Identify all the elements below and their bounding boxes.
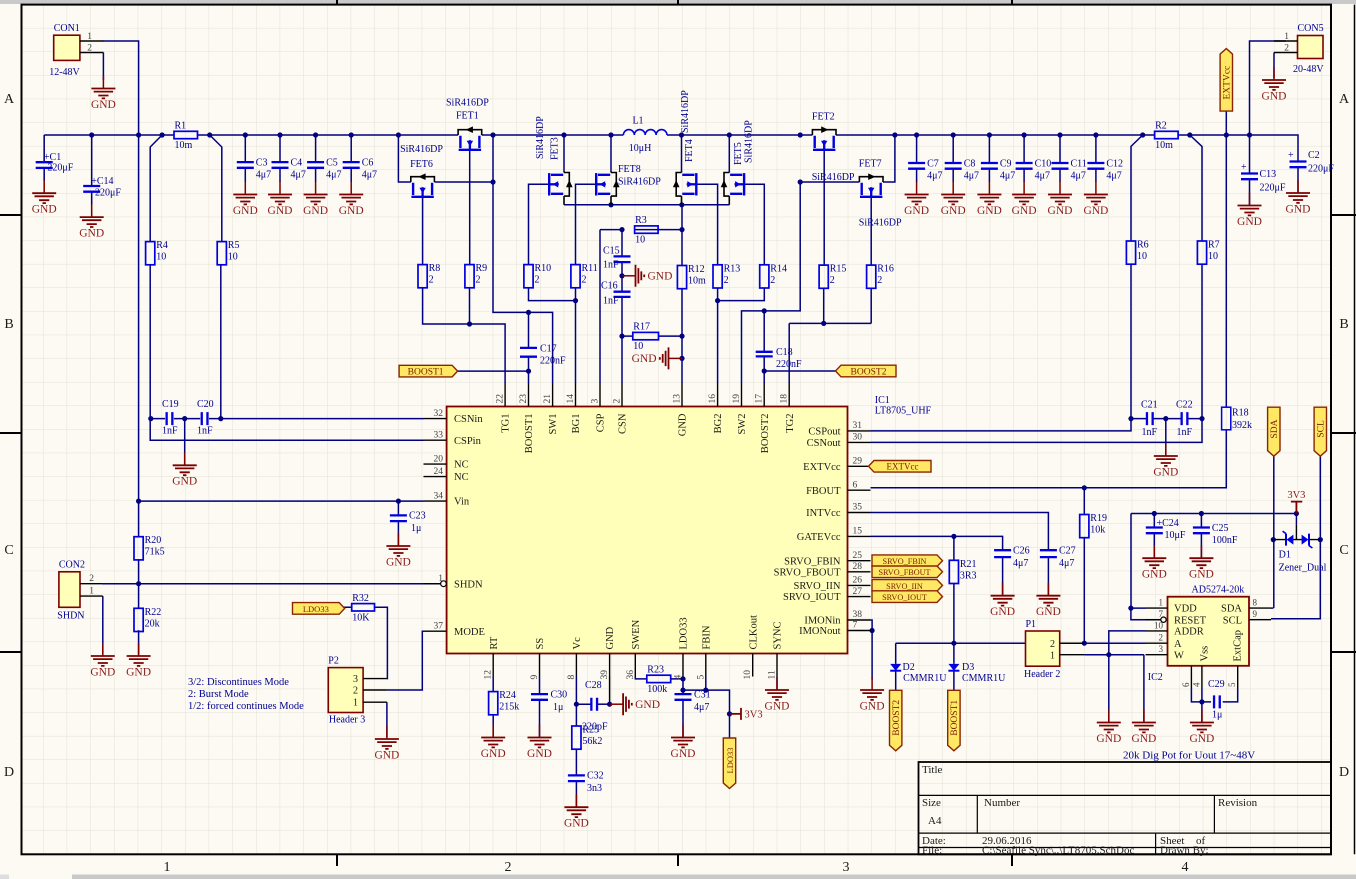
wire VDD pin1 and RESET	[1131, 608, 1161, 620]
connector CON1	[49, 23, 103, 78]
wire R6 to CSPout pin 31	[871, 264, 1134, 431]
net label BOOST1 bottom	[948, 690, 961, 751]
svg-text:GND: GND	[1189, 569, 1214, 581]
svg-text:CSNin: CSNin	[454, 414, 483, 425]
svg-text:CSPin: CSPin	[454, 436, 482, 447]
capacitor C19 1nF	[162, 399, 179, 437]
svg-text:4: 4	[674, 675, 684, 680]
ground IMON	[860, 677, 885, 712]
svg-text:P1: P1	[1026, 619, 1037, 630]
pin 3 W AD5274	[1146, 644, 1185, 661]
ground R22	[126, 643, 151, 678]
capacitor C11 4u7	[1052, 159, 1087, 182]
svg-text:BOOST1: BOOST1	[950, 700, 960, 736]
svg-text:R4: R4	[156, 240, 168, 251]
svg-text:A4: A4	[928, 815, 942, 827]
wire R18 to FBOUT pin 6	[871, 430, 1227, 491]
pin 34 Vin	[424, 491, 470, 507]
net label SRVO_IOUT	[872, 591, 943, 603]
pin 33 CSPin	[424, 430, 482, 446]
connector CON2	[57, 560, 103, 622]
pin 12 RT	[484, 636, 500, 679]
pin 35 INTVcc	[806, 503, 870, 519]
net label LDO33 left	[293, 603, 345, 615]
ground CON5	[1262, 67, 1287, 102]
svg-text:GND: GND	[1012, 205, 1037, 217]
svg-text:392k: 392k	[1232, 420, 1252, 431]
svg-text:GND: GND	[32, 204, 57, 216]
svg-text:CSNout: CSNout	[807, 438, 841, 449]
svg-text:R3: R3	[635, 215, 647, 226]
wire FET5 gate to R14	[744, 184, 764, 264]
svg-text:32: 32	[434, 409, 444, 419]
ground C10	[1012, 182, 1037, 217]
svg-text:C32: C32	[587, 771, 604, 782]
wire SCL net	[1271, 456, 1323, 619]
ground C14	[79, 204, 104, 239]
wire R2 to R7 diagonal	[1190, 135, 1202, 241]
svg-text:GND: GND	[1048, 205, 1073, 217]
svg-text:R22: R22	[145, 607, 162, 618]
svg-text:2: 2	[476, 275, 481, 286]
svg-text:GND: GND	[268, 205, 293, 217]
ground R12 R17	[632, 347, 682, 369]
svg-text:10μF: 10μF	[1165, 530, 1186, 541]
wire SW2 rail segment	[667, 132, 812, 137]
svg-text:NC: NC	[454, 460, 469, 471]
svg-text:CON2: CON2	[59, 560, 85, 571]
svg-text:10K: 10K	[352, 612, 370, 623]
svg-text:Title: Title	[922, 764, 943, 776]
resistor R22 20k	[134, 607, 161, 632]
svg-text:SS: SS	[535, 638, 546, 650]
capacitor C29 1u	[1208, 679, 1225, 721]
svg-text:SW1: SW1	[548, 414, 559, 435]
svg-text:26: 26	[853, 576, 863, 586]
svg-text:C25: C25	[1212, 523, 1229, 534]
wire FET7 gate to R16	[870, 197, 872, 265]
svg-text:TG2: TG2	[785, 414, 796, 433]
svg-text:TG1: TG1	[501, 414, 512, 433]
capacitor C8 4u7	[945, 159, 979, 182]
svg-text:C12: C12	[1106, 159, 1123, 170]
svg-text:3/2: Discontinues Mode: 3/2: Discontinues Mode	[188, 677, 289, 688]
svg-text:CSP: CSP	[596, 413, 607, 432]
wire CSP net R3 to pin 3	[600, 227, 682, 384]
svg-text:Size: Size	[922, 797, 941, 809]
net label BOOST2	[836, 365, 897, 377]
svg-text:4μ7: 4μ7	[326, 170, 341, 181]
pin 4 LDO33	[674, 617, 690, 679]
svg-text:BG2: BG2	[713, 414, 724, 434]
svg-text:19: 19	[732, 394, 742, 404]
svg-text:GND: GND	[678, 413, 689, 436]
svg-text:3n3: 3n3	[587, 783, 602, 794]
svg-text:C3: C3	[256, 158, 268, 169]
ground P1 ADDR	[1096, 710, 1121, 745]
pin 10 ADDR AD5274	[1146, 620, 1204, 637]
svg-text:1nF: 1nF	[603, 296, 619, 307]
wire MODE pin 37 to P2	[387, 631, 424, 690]
svg-text:R1: R1	[175, 121, 187, 132]
svg-text:GND: GND	[527, 748, 552, 760]
svg-text:MODE: MODE	[454, 627, 485, 638]
pin 8 SDA AD5274	[1221, 598, 1271, 615]
wire C2 to GND	[1297, 167, 1299, 193]
wire Vss to C29 and GND	[1191, 688, 1237, 723]
svg-text:1nF: 1nF	[197, 426, 213, 437]
pin 3 CSP	[591, 384, 607, 433]
svg-text:R18: R18	[1232, 408, 1249, 419]
svg-text:GND: GND	[386, 556, 411, 568]
wire C17 BOOST1 net to pin 23	[457, 312, 531, 383]
resistor R2 10m	[1155, 121, 1179, 152]
capacitor C32 3n3	[568, 771, 604, 795]
resistor R24 215k	[489, 690, 520, 715]
pin 9 SCL AD5274	[1223, 609, 1271, 626]
pin 39 GND	[600, 626, 616, 679]
svg-text:16: 16	[708, 394, 718, 404]
svg-text:R23: R23	[647, 664, 664, 675]
svg-text:1nF: 1nF	[1177, 427, 1193, 438]
svg-text:1: 1	[1050, 651, 1055, 662]
svg-text:10: 10	[1137, 251, 1147, 262]
wire P1 pin1 ADDR W ground net	[1084, 631, 1145, 723]
wire CSPin pin 33 net	[148, 265, 423, 441]
svg-text:C16: C16	[601, 281, 618, 292]
transistor FET4 SiR416DP	[673, 90, 696, 205]
svg-text:D1: D1	[1279, 550, 1291, 561]
ground C24	[1142, 545, 1167, 580]
svg-text:GND: GND	[1142, 569, 1167, 581]
wire FET6 gate to R8	[422, 197, 424, 265]
ground W	[1131, 710, 1156, 745]
svg-text:20-48V: 20-48V	[1293, 64, 1324, 75]
svg-text:1: 1	[353, 698, 358, 709]
svg-text:100k: 100k	[647, 684, 667, 695]
ground C1	[32, 180, 57, 215]
wire IMONin IMONout tie to GND	[870, 620, 875, 680]
ground C30	[527, 725, 552, 760]
resistor R12 10m	[677, 264, 706, 289]
svg-text:4μ7: 4μ7	[1106, 171, 1121, 182]
wire EXTVcc flag stem	[1225, 111, 1227, 135]
svg-text:GND: GND	[303, 205, 328, 217]
svg-text:220μF: 220μF	[95, 188, 121, 199]
svg-text:D3: D3	[962, 662, 974, 673]
transistor FET3 SiR416DP	[535, 116, 573, 205]
svg-text:R6: R6	[1137, 240, 1149, 251]
svg-text:Revision: Revision	[1218, 797, 1258, 809]
svg-text:1: 1	[89, 587, 94, 597]
svg-text:Number: Number	[984, 797, 1020, 809]
svg-text:4μ7: 4μ7	[1035, 171, 1050, 182]
pin 1 VDD AD5274	[1146, 598, 1198, 615]
svg-text:21: 21	[543, 394, 553, 404]
svg-text:4μ7: 4μ7	[362, 170, 377, 181]
svg-text:GND: GND	[339, 205, 364, 217]
wire FET5 drain	[728, 135, 730, 171]
wire SW1 rail segment	[482, 132, 624, 137]
svg-text:1nF: 1nF	[1142, 427, 1158, 438]
ground C21 C22	[1153, 443, 1178, 478]
svg-text:37: 37	[434, 621, 444, 631]
wire FET source ground-sense bus	[564, 202, 729, 207]
svg-text:4μ7: 4μ7	[1000, 171, 1015, 182]
svg-text:R2: R2	[1155, 121, 1167, 132]
svg-text:BOOST2: BOOST2	[760, 414, 771, 454]
svg-text:CSN: CSN	[618, 413, 629, 434]
net label SRVO_FBIN	[872, 555, 943, 567]
svg-text:GND: GND	[564, 818, 589, 830]
pin 15 GATEVcc	[797, 527, 871, 543]
svg-text:GND: GND	[632, 353, 657, 365]
svg-text:220nF: 220nF	[540, 356, 566, 367]
svg-text:BOOST2: BOOST2	[892, 700, 902, 736]
wire VOUT rail	[836, 132, 1155, 137]
svg-text:C20: C20	[197, 399, 214, 410]
svg-text:R12: R12	[688, 264, 705, 275]
net label SCL	[1314, 407, 1327, 456]
svg-text:C7: C7	[927, 159, 939, 170]
svg-text:36: 36	[626, 670, 636, 680]
wire SW2 tap to pin 19 and C18	[742, 182, 801, 384]
capacitor C9 4u7	[981, 159, 1015, 182]
text mode comment	[188, 677, 304, 712]
svg-text:9: 9	[1253, 609, 1258, 619]
connector P2 Header 3	[328, 656, 387, 726]
inductor L1 10uH	[623, 116, 667, 155]
pin 21 SW1	[543, 384, 559, 435]
svg-text:18: 18	[780, 394, 790, 404]
svg-text:10: 10	[633, 341, 643, 352]
svg-text:4μ7: 4μ7	[1071, 171, 1086, 182]
wire CON1 feed	[103, 41, 139, 135]
svg-text:C13: C13	[1260, 169, 1277, 180]
svg-text:8: 8	[567, 675, 577, 680]
capacitor C6 4u7	[343, 158, 377, 181]
svg-text:10m: 10m	[688, 276, 706, 287]
svg-text:CSPout: CSPout	[808, 427, 840, 438]
op-amp U IC1 LT8705_UHF body	[447, 395, 932, 654]
net label SDA	[1268, 407, 1281, 456]
svg-text:3: 3	[591, 399, 601, 404]
svg-text:FET6: FET6	[410, 159, 433, 170]
svg-text:SRVO_IOUT: SRVO_IOUT	[783, 592, 841, 603]
pin 11 SYNC	[768, 621, 784, 679]
svg-text:FBOUT: FBOUT	[806, 486, 841, 497]
op-amp U IC2 AD5274 body	[1148, 585, 1249, 684]
wire FET2 gate to R15	[823, 150, 825, 265]
pin 7 IMONout	[799, 621, 870, 637]
svg-text:C9: C9	[1000, 159, 1012, 170]
svg-text:AD5274-20k: AD5274-20k	[1192, 585, 1245, 596]
svg-text:C28: C28	[585, 680, 602, 691]
capacitor C10 4u7	[1016, 159, 1052, 182]
svg-text:Vc: Vc	[572, 637, 583, 650]
svg-text:C22: C22	[1176, 400, 1193, 411]
wire VIN input rail	[44, 132, 458, 205]
svg-text:5: 5	[1227, 682, 1237, 687]
wire R1 to R5 diagonal	[210, 135, 222, 242]
svg-text:220nF: 220nF	[776, 359, 802, 370]
svg-text:R14: R14	[770, 263, 787, 274]
svg-text:D: D	[4, 765, 14, 780]
svg-text:1μ: 1μ	[411, 523, 421, 534]
wire C7-C12 stems	[917, 135, 1096, 182]
svg-text:7: 7	[1159, 609, 1164, 619]
svg-text:R21: R21	[960, 559, 977, 570]
pin 2 CSN	[613, 384, 629, 434]
svg-text:GND: GND	[990, 606, 1015, 618]
svg-text:2: 2	[429, 275, 434, 286]
wire SWEN pin 36 to R23	[635, 677, 647, 679]
svg-text:C21: C21	[1141, 400, 1158, 411]
svg-text:C:\Seafile Sync\..\LT8705.SchD: C:\Seafile Sync\..\LT8705.SchDoc	[982, 845, 1134, 857]
svg-text:10: 10	[743, 670, 753, 680]
resistor R23 100k	[647, 664, 671, 695]
svg-text:5: 5	[696, 675, 706, 680]
svg-text:INTVcc: INTVcc	[806, 508, 841, 519]
wire R23 to LDO33 pin 4 net	[671, 676, 732, 738]
svg-text:C30: C30	[551, 690, 568, 701]
svg-text:SYNC: SYNC	[773, 621, 784, 649]
svg-text:15: 15	[853, 527, 863, 537]
capacitor C31 4u7	[675, 690, 711, 714]
svg-text:LDO33: LDO33	[725, 748, 735, 774]
svg-text:GND: GND	[172, 476, 197, 488]
ground C11	[1048, 182, 1073, 217]
svg-text:R19: R19	[1090, 513, 1107, 524]
svg-text:BOOST1: BOOST1	[524, 414, 535, 454]
svg-text:2: 2	[353, 686, 358, 697]
wire R1 to R4 diagonal	[150, 135, 162, 242]
svg-text:SRVO_FBIN: SRVO_FBIN	[883, 557, 927, 566]
resistor R8 2	[418, 263, 440, 288]
svg-text:L1: L1	[632, 116, 643, 127]
pin 27 SRVO_IOUT	[783, 587, 871, 603]
capacitor C7 4u7	[908, 159, 942, 182]
ground C12	[1083, 182, 1108, 217]
svg-text:8: 8	[1253, 598, 1258, 608]
svg-text:SRVO_FBOUT: SRVO_FBOUT	[774, 567, 841, 578]
svg-text:B: B	[1339, 317, 1348, 332]
svg-text:SRVO_IIN: SRVO_IIN	[886, 582, 923, 591]
svg-text:A: A	[1339, 92, 1350, 107]
wire FET7 branch	[798, 135, 895, 185]
pin Vss ExtCap names	[1200, 630, 1244, 662]
ground C2	[1286, 180, 1311, 215]
svg-text:2: 2	[87, 43, 92, 53]
svg-text:Zener_Dual: Zener_Dual	[1279, 563, 1327, 574]
wire R10 R11 join to pin 14 BG1	[529, 288, 579, 384]
svg-text:CLKout: CLKout	[748, 615, 759, 650]
svg-text:GND: GND	[635, 699, 660, 711]
svg-text:10: 10	[1208, 251, 1218, 262]
svg-text:2: 2	[1284, 43, 1289, 53]
svg-text:SiR416DP: SiR416DP	[446, 98, 489, 109]
pin 25 SRVO_FBIN	[784, 551, 870, 567]
wire R7 to CSNout pin 30	[871, 264, 1205, 442]
wire RT pin 12 to R24	[492, 677, 494, 738]
svg-text:Header 3: Header 3	[329, 715, 365, 726]
svg-text:C15: C15	[603, 246, 620, 257]
svg-text:4μ7: 4μ7	[964, 171, 979, 182]
svg-text:GND: GND	[605, 626, 616, 649]
svg-text:EXTVcc: EXTVcc	[887, 462, 919, 472]
transistor FET7 SiR416DP	[859, 159, 902, 229]
svg-text:R9: R9	[476, 263, 488, 274]
wire R12 sense branch to pin 13	[679, 205, 684, 384]
svg-text:IMONin: IMONin	[804, 616, 841, 627]
svg-text:34: 34	[434, 491, 444, 501]
svg-text:C4: C4	[291, 158, 303, 169]
wire CON1 pin2 to GND	[102, 53, 104, 81]
ground C8	[941, 182, 966, 217]
svg-text:GATEVcc: GATEVcc	[797, 532, 841, 543]
net label BOOST2 bottom	[890, 690, 903, 751]
wire R2 to R6 diagonal	[1131, 135, 1143, 241]
wire Vin pin 34 net	[136, 135, 424, 546]
svg-text:GND: GND	[1262, 90, 1287, 102]
svg-text:BOOST1: BOOST1	[408, 368, 444, 378]
wire SW1 node down to pin 21	[490, 135, 552, 384]
ground Vss	[1189, 710, 1214, 745]
svg-text:GND: GND	[1237, 216, 1262, 228]
svg-text:A: A	[1174, 639, 1182, 650]
svg-text:R32: R32	[352, 593, 369, 604]
wire servo clamp net D2 D3 P1 A	[896, 641, 1146, 691]
wire C21 C22 row	[1131, 416, 1202, 456]
svg-text:C5: C5	[326, 158, 338, 169]
svg-text:220μF: 220μF	[1308, 164, 1334, 175]
resistor R16 2	[867, 264, 894, 289]
resistor R7 10	[1197, 240, 1219, 265]
svg-text:C2: C2	[1308, 150, 1320, 161]
svg-text:C6: C6	[362, 158, 374, 169]
wire FET8 gate to R11	[576, 184, 597, 264]
svg-text:10μH: 10μH	[629, 143, 652, 154]
capacitor C15 1nF	[603, 246, 631, 271]
net label LDO33 bottom	[723, 738, 735, 789]
svg-text:GND: GND	[374, 749, 399, 761]
wire FET4 drain	[681, 135, 683, 171]
svg-text:+C14: +C14	[91, 176, 113, 187]
svg-text:4: 4	[1191, 682, 1201, 687]
ground C9	[977, 182, 1002, 217]
svg-text:220μF: 220μF	[1260, 183, 1286, 194]
svg-text:SW2: SW2	[737, 414, 748, 435]
svg-text:GND: GND	[671, 748, 696, 760]
capacitor C16 1nF	[601, 281, 631, 307]
power port 3V3 lower	[730, 708, 763, 721]
pin 29 EXTVcc	[803, 457, 870, 473]
wire SDA net	[1271, 456, 1276, 608]
svg-text:Vin: Vin	[454, 497, 470, 508]
wire CON5 pin2 to GND	[1273, 53, 1275, 79]
wire FET3 drain	[563, 135, 565, 171]
svg-text:1: 1	[1284, 32, 1289, 42]
svg-text:C23: C23	[409, 511, 426, 522]
wire D1 center stem	[1295, 514, 1297, 540]
pin 30 CSNout	[807, 433, 871, 449]
svg-text:SiR416DP: SiR416DP	[812, 172, 855, 183]
svg-text:C: C	[1339, 543, 1348, 558]
svg-text:9: 9	[530, 675, 540, 680]
ground C32	[564, 794, 589, 829]
capacitor C17 220nF	[520, 344, 566, 367]
svg-text:100nF: 100nF	[1212, 535, 1238, 546]
